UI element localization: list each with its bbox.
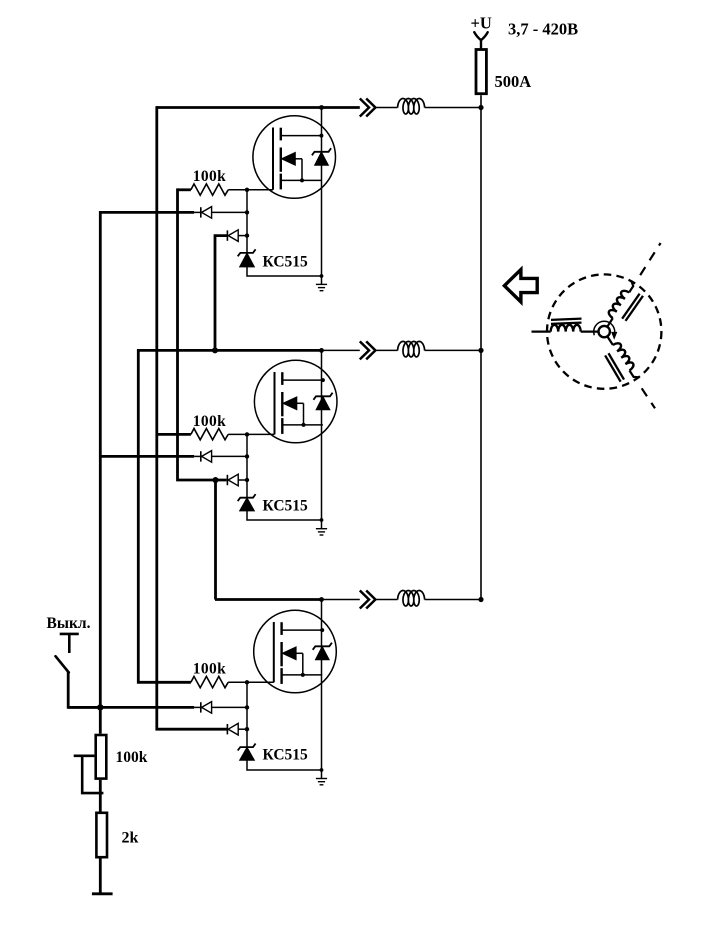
motor winding W1 coil [551, 325, 581, 332]
wire zener to ground line [247, 760, 322, 770]
wire gate node vertical [246, 434, 248, 497]
inductor L2 [398, 341, 425, 357]
node D6/gate junction [245, 727, 249, 731]
wire source/body-diode vertical [321, 350, 323, 520]
connector chevrons phase3 [360, 591, 369, 609]
node switch/divider junction [97, 704, 103, 710]
wire zener to ground line [247, 267, 322, 276]
svg-text:100k: 100k [193, 661, 226, 678]
wire R3 to gate node [228, 681, 274, 683]
node gate3/resistor junction [245, 680, 249, 684]
rheostat tap wire on R4 [74, 756, 104, 793]
diode D5 [200, 702, 202, 712]
transistor VT2 (N-MOSFET in circle) [254, 360, 337, 443]
wire D1 lead [194, 211, 201, 213]
motor rotation arrow [594, 321, 615, 335]
motor winding W3 (lower right) [596, 333, 641, 387]
wire bus E (diode D2 row down to phase2) [215, 236, 227, 351]
motor winding W1 lead to rotor [581, 331, 599, 333]
zener diode VD2 KC515 [238, 494, 256, 501]
ground (divider) [92, 892, 113, 895]
wire D3 lead [194, 455, 201, 457]
motor rotor circle [599, 326, 610, 337]
wire D1 anode to gate node [212, 211, 247, 213]
wire R1 lead [178, 188, 191, 191]
wire gate node vertical [246, 682, 248, 747]
node gate2/resistor junction [245, 432, 249, 436]
node bus F / diode D4 junction [213, 477, 219, 483]
wire bus B (phase2 down to R3 gate resistor) [138, 349, 191, 682]
node ground line junction [320, 768, 324, 772]
svg-text:100k: 100k [116, 749, 148, 766]
wire inductor L1 to +V rail [425, 107, 481, 109]
zener diode VD3 KC515 [238, 744, 256, 751]
node bus E / phase2 junction [212, 347, 218, 353]
wire connector to inductor L2 [375, 349, 397, 351]
svg-text:КС515: КС515 [263, 497, 309, 514]
wire D3 anode to gate node [212, 455, 247, 457]
wire phase2 to connector [322, 349, 360, 351]
zener diode VD1 KC515 [238, 249, 256, 256]
diode D6 [226, 724, 228, 734]
connector chevrons phase1 [360, 99, 369, 117]
connector chevrons phase2 [360, 341, 369, 359]
fuse FU1 (box) [476, 50, 486, 94]
node D3/gate junction [245, 454, 249, 458]
node drain junction phase1 [319, 105, 324, 110]
resistor R1 100k (gate) [191, 184, 228, 195]
wire inductor L2 to +V rail [425, 349, 481, 351]
switch SA1 blade [56, 656, 69, 672]
svg-text:+U: +U [471, 14, 492, 33]
motor winding W2 (upper right) [602, 279, 647, 334]
wire zener to ground line [247, 511, 322, 520]
wire diode D3 row (thick) [100, 455, 194, 458]
wire phase3 to connector [322, 599, 360, 601]
wire diode D1 row (thick) [100, 211, 194, 214]
wire bus A (diode D1 row to switch node) [99, 211, 102, 707]
wire D2 anode to gate node [238, 235, 247, 237]
arrow to motor [504, 270, 537, 302]
wire R5 to ground [99, 859, 102, 894]
node rail/phase3 junction [478, 597, 483, 602]
wire phase2 rail (thick) [138, 349, 321, 352]
node D5/gate junction [245, 705, 249, 709]
wire D5 lead [194, 706, 201, 708]
svg-text:100k: 100k [193, 413, 226, 430]
motor shaft axis (lower right, dashed) [642, 388, 655, 408]
svg-text:3,7 - 420В: 3,7 - 420В [508, 20, 578, 39]
wire connector to inductor L3 [375, 599, 397, 601]
resistor R5 2k (box) [96, 813, 107, 857]
wire node to R4 [99, 707, 102, 733]
wire fuse to +V rail junction [480, 95, 482, 107]
node rail/phase1 junction [478, 105, 483, 110]
node rail/phase2 junction [478, 348, 483, 353]
wire R1 to gate node [228, 189, 273, 191]
motor M1 dashed stator circle [547, 274, 661, 388]
wire connector to inductor L1 [375, 107, 397, 109]
wire source/body-diode vertical [321, 600, 323, 771]
node drain junction phase3 [319, 597, 324, 602]
wire D4 anode to gate node [238, 479, 247, 481]
wire phase3 rail (thick) [215, 598, 322, 601]
svg-text:КС515: КС515 [263, 747, 309, 764]
wire bus C (phase1 down to diode D6 row) [157, 106, 228, 729]
svg-text:2k: 2k [122, 830, 139, 847]
wire bus C tap to R2 gate resistor [157, 433, 191, 436]
svg-text:КС515: КС515 [263, 253, 309, 270]
wire gate node vertical [246, 190, 248, 253]
node D2/gate junction [245, 233, 249, 237]
resistor R3 100k (gate) [191, 676, 228, 687]
motor shaft axis (upper right, dashed) [640, 243, 660, 275]
wire R2 to gate node [228, 433, 274, 435]
transistor VT3 (N-MOSFET in circle) [254, 610, 337, 693]
switch SA1 fixed contact [60, 633, 79, 636]
wire R4 to R5 [99, 780, 102, 812]
node ground line junction [320, 274, 324, 278]
svg-text:100k: 100k [193, 168, 226, 185]
node drain junction phase2 [319, 348, 324, 353]
wire bus F (diode D4 node down to phase3) [214, 480, 217, 600]
+U supply terminal (Y symbol) [474, 32, 487, 48]
diode D1 [200, 207, 202, 217]
wire source/body-diode vertical [321, 108, 323, 277]
wire D5 anode to gate node [212, 706, 247, 708]
wire bus D (R1 gate resistor down to diode D4 row) [178, 188, 227, 480]
resistor R4 100k (box, rheostat tap) [96, 735, 107, 779]
diode D4 [226, 475, 228, 485]
resistor R2 100k (gate) [191, 429, 228, 440]
diode D2 [226, 230, 228, 240]
wire D6 anode to gate node [238, 728, 247, 730]
ground (block 2) [321, 520, 323, 529]
node gate1/resistor junction [245, 188, 249, 192]
inductor L1 [398, 99, 425, 115]
wire switch to diode D5 row (thick) [68, 706, 194, 709]
node ground line junction [320, 518, 324, 522]
motor winding W1 core lines [551, 319, 582, 320]
node D4/gate junction [245, 478, 249, 482]
svg-text:Выкл.: Выкл. [47, 615, 91, 632]
transistor VT1 (N-MOSFET in circle) [253, 116, 336, 199]
diode D3 [200, 451, 202, 461]
inductor L3 [398, 591, 425, 607]
svg-text:500A: 500A [495, 72, 532, 91]
+V vertical rail [480, 108, 482, 600]
wire phase1 rail (thick) [157, 106, 360, 109]
wire inductor L3 to +V rail [425, 599, 481, 601]
motor winding W1 (left) lead [532, 331, 551, 333]
wire switch to node [68, 672, 100, 708]
ground (block 1) [321, 276, 323, 284]
ground (block 3) [321, 770, 323, 779]
node D1/gate junction [245, 210, 249, 214]
